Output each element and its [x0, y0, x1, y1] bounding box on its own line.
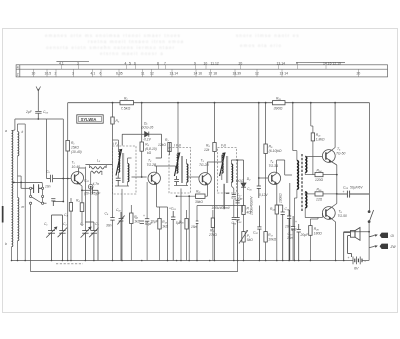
resistor R15 [179, 210, 188, 261]
svg-text:7: 7 [164, 61, 166, 65]
trimmer C10 [117, 212, 124, 261]
capacitor C18b elco [232, 217, 236, 219]
IFT1 core [123, 153, 124, 183]
svg-text:emanes orte ms enoimsa rtenoi: emanes orte ms enoimsa rtenoi smaer tnoe… [45, 33, 181, 38]
wire T1 collector and emitter [79, 168, 91, 203]
resistor R5 [140, 142, 157, 155]
tuning gang trimmer C2 [52, 215, 68, 261]
svg-text:R₂₅: R₂₅ [317, 188, 323, 192]
wire transformer connections [293, 151, 337, 261]
resistor R10 under detector [242, 206, 252, 232]
capacitor C50 antenna coupling [35, 111, 41, 120]
resistor R14 T4 emitter [270, 205, 279, 261]
IF transformer I dashed box [113, 146, 137, 194]
resistor R4 at T1 emitter [76, 199, 84, 227]
speaker [344, 228, 360, 261]
wire T6 collector/emitter [331, 194, 337, 261]
volume potentiometer P1 5k [239, 196, 254, 261]
svg-text:R₁₈: R₁₈ [276, 97, 281, 101]
svg-text:20µF: 20µF [300, 233, 310, 237]
svg-text:6V: 6V [354, 267, 359, 271]
wire left feed column [67, 103, 69, 261]
wire battery to switch column [362, 248, 369, 261]
svg-text:20: 20 [239, 61, 243, 65]
resistor R11 horizontal 39k [176, 190, 208, 261]
SYLWIA nameplate [77, 115, 103, 123]
IFT1 secondary winding [128, 164, 129, 182]
svg-text:10n: 10n [287, 236, 293, 240]
svg-text:4: 4 [296, 61, 298, 65]
svg-text:15kΩ: 15kΩ [71, 146, 79, 150]
IFT2 tuning capacitor [174, 176, 179, 186]
svg-text:C₁₅: C₁₅ [247, 187, 252, 191]
wire T3 collector/emitter [207, 162, 222, 196]
svg-text:C₅₀: C₅₀ [43, 110, 49, 114]
wire right edge drop [369, 103, 371, 211]
svg-text:17 18: 17 18 [209, 71, 218, 75]
svg-text:30n: 30n [106, 224, 112, 228]
svg-text:kΩ: kΩ [147, 151, 152, 155]
capacitor C14 detector filter [236, 201, 240, 261]
wire R5 to T2 base [132, 151, 147, 177]
svg-text:4,7n: 4,7n [93, 182, 100, 186]
resistor R9 bias [264, 144, 282, 154]
oscillator coil L3 [85, 165, 112, 174]
svg-text:+: + [135, 217, 137, 221]
svg-text:etsrno maeit noesr a: etsrno maeit noesr a [100, 51, 164, 56]
resistor R25 horizontal [315, 188, 323, 202]
wire antenna input loop [12, 119, 64, 202]
svg-text:10n: 10n [45, 185, 51, 189]
band switch contacts [13, 182, 47, 204]
svg-text:11,12: 11,12 [211, 61, 219, 65]
wire T2 collector/emitter [155, 166, 176, 261]
svg-text:R₁: R₁ [71, 141, 74, 145]
svg-text:11: 11 [141, 71, 145, 75]
transistor T5 [322, 150, 335, 163]
capacitor C17 [287, 210, 291, 261]
svg-text:100k/400mV: 100k/400mV [250, 196, 254, 215]
resistor R21 1.8k [311, 103, 325, 175]
wire IFT1 connections [113, 140, 132, 261]
svg-text:1,8kΩ: 1,8kΩ [316, 137, 325, 141]
svg-text:TG-3A: TG-3A [269, 164, 280, 168]
svg-text:TG-50: TG-50 [336, 151, 346, 155]
capacitor C16 emitter bypass [277, 205, 285, 261]
svg-text:R₁₄: R₁₄ [270, 207, 275, 211]
svg-text:12Ω: 12Ω [316, 197, 323, 201]
tuning gang C1 main section [46, 215, 57, 261]
IFT1 tuning capacitor [116, 176, 121, 186]
svg-text:R₁₅: R₁₅ [179, 220, 184, 224]
svg-text:SYLWIA: SYLWIA [81, 117, 97, 122]
ferrite rod antenna coil L2 upper [18, 132, 19, 156]
capacitor C27 [291, 216, 295, 261]
wire rail drop resistor R7 column [169, 143, 171, 156]
wire T4 emitter [276, 183, 278, 205]
svg-text:180Ω: 180Ω [314, 231, 323, 235]
svg-text:I F₁II: I F₁II [174, 144, 181, 148]
svg-text:3: 3 [72, 71, 74, 75]
svg-text:2: 2 [17, 73, 19, 77]
svg-text:27kΩ: 27kΩ [208, 233, 217, 237]
svg-text:5kΩ: 5kΩ [247, 238, 253, 242]
IFT3 secondary winding [231, 164, 232, 182]
resistor R3 on feed column [111, 117, 120, 124]
svg-text:I F₁I: I F₁I [113, 142, 119, 146]
wire rail drop x214.5 with resistor R8 [214, 103, 216, 261]
svg-text:13 14: 13 14 [280, 71, 289, 75]
svg-text:13,14: 13,14 [170, 71, 179, 75]
svg-text:C₂₂: C₂₂ [84, 179, 90, 183]
svg-text:(6-10)kΩ: (6-10)kΩ [269, 149, 282, 153]
capacitor C12 coupling [196, 221, 199, 261]
svg-text:ZW: ZW [390, 245, 397, 249]
svg-text:120Ω: 120Ω [315, 178, 324, 182]
svg-text:3: 3 [77, 61, 79, 65]
capacitor at lower row [51, 199, 55, 206]
IFT3 primary winding [220, 153, 225, 176]
svg-text:20: 20 [357, 71, 361, 75]
svg-text:12: 12 [150, 71, 154, 75]
IFT2 secondary winding [187, 164, 188, 182]
resistor R18 390 on rail [273, 97, 286, 111]
resistor R1 [66, 141, 82, 155]
svg-text:8: 8 [157, 61, 159, 65]
wire rail drop pair x255.6/x263.5 [259, 103, 269, 178]
svg-text:10kΩ: 10kΩ [268, 237, 276, 241]
svg-text:Gł: Gł [391, 234, 395, 238]
svg-text:+C₁₈: +C₁₈ [169, 207, 176, 211]
wire T5 collector/emitter [331, 103, 337, 194]
wire AF line [197, 206, 244, 222]
svg-text:C₁: C₁ [44, 222, 47, 226]
svg-text:C₁₀: C₁₀ [116, 208, 121, 212]
svg-text:b: b [5, 242, 7, 246]
svg-text:C₁₄: C₁₄ [232, 196, 237, 200]
svg-text:6: 6 [134, 61, 136, 65]
IFT2 core [181, 156, 182, 183]
diode D1 DOG-26 AGC [122, 122, 161, 159]
svg-text:+: + [348, 256, 350, 260]
svg-text:+: + [343, 190, 345, 194]
driver transformer secondary lower [305, 192, 307, 208]
bus junction dots [11, 260, 345, 262]
ground bus [12, 260, 354, 262]
svg-text:DOG: DOG [236, 179, 244, 183]
svg-text:2: 2 [55, 71, 57, 75]
ghost bleed-through text [45, 33, 300, 56]
capacitor C17 20n [232, 195, 236, 197]
capacitor C5 10n to T1 base [47, 175, 71, 182]
svg-text:C₂₈: C₂₈ [343, 186, 349, 190]
wire switch to jacks junction [344, 223, 369, 248]
gang link dashed [56, 263, 83, 265]
capacitor C28 output electrolytic 50uF [337, 191, 369, 198]
svg-text:14 16: 14 16 [194, 71, 203, 75]
driver transformer Tr1 primary [297, 161, 299, 190]
svg-text:emos nta erio: emos nta erio [240, 43, 282, 48]
svg-text:6: 6 [100, 71, 102, 75]
resistor R17 [264, 154, 277, 261]
svg-text:F₁II: F₁II [221, 144, 226, 148]
svg-text:(10-40): (10-40) [71, 150, 82, 154]
svg-text:-0,1V: -0,1V [143, 138, 152, 142]
resistor R12 27k [208, 210, 217, 261]
tuning gang C7 osc section [81, 227, 91, 261]
antenna [36, 87, 40, 112]
electrolytic C11 [140, 221, 144, 224]
svg-text:m: m [22, 205, 25, 209]
jack G2 external [369, 244, 396, 249]
resistor R26 bottom [309, 218, 323, 261]
switch W1 power [368, 210, 374, 223]
svg-text:12: 12 [255, 71, 259, 75]
resistor R8 [204, 143, 216, 152]
wire T2 emitter bias column [146, 182, 148, 261]
jack G1 headphone [369, 233, 394, 238]
transistor T3 [199, 173, 211, 185]
svg-text:a: a [5, 129, 7, 133]
svg-text:15n: 15n [191, 225, 197, 229]
svg-text:12k: 12k [204, 148, 210, 152]
svg-text:4: 4 [125, 61, 127, 65]
svg-text:5: 5 [129, 61, 131, 65]
svg-text:snore itmse naotr es: snore itmse naotr es [236, 33, 300, 38]
svg-text:7,5kΩ: 7,5kΩ [121, 107, 131, 111]
electrolytic C18 5uF [171, 211, 175, 261]
wire T4 collector to transformer [277, 160, 292, 175]
ruler scale numbers top row [17, 61, 341, 76]
supply rail top [68, 102, 370, 104]
wire switch to loop [31, 189, 43, 271]
transistor T2 [148, 172, 160, 184]
transistor T6 [322, 207, 335, 220]
svg-text:14,16 12,19: 14,16 12,19 [323, 61, 341, 65]
IFT1 primary winding [116, 150, 122, 176]
svg-text:10: 10 [32, 71, 36, 75]
transistor T1 [71, 172, 83, 184]
capacitor C6 4n7 at T1 emitter [91, 187, 98, 261]
wire IFT2 connections [174, 103, 199, 261]
svg-text:TG-50: TG-50 [338, 214, 348, 218]
capacitor C29 elco [297, 224, 301, 261]
svg-text:C₈: C₈ [95, 222, 99, 226]
ferrite rod antenna coil L1 [12, 131, 13, 247]
driver transformer secondary upper [305, 157, 307, 173]
svg-text:1kΩ: 1kΩ [162, 224, 168, 228]
svg-text:100kΩ: 100kΩ [279, 193, 283, 203]
svg-text:DOG-26: DOG-26 [141, 126, 153, 130]
resistor R7 [158, 138, 171, 152]
trimmer capacitor C22 [88, 184, 93, 189]
diode D2 detector [231, 160, 246, 206]
resistor R24 horizontal [315, 168, 324, 182]
svg-text:100k/400mV: 100k/400mV [212, 206, 231, 210]
IFT3 slug adjust line [224, 184, 229, 209]
lower return loop wire [31, 261, 238, 272]
svg-text:4.1: 4.1 [59, 61, 64, 65]
capacitor C9 30n [110, 218, 114, 221]
resistor R6 [130, 205, 141, 261]
svg-text:0,12V: 0,12V [259, 193, 268, 197]
svg-text:(20-125)pF: (20-125)pF [84, 192, 101, 196]
scan artifact left edge [2, 206, 4, 223]
wire IFT3 connections [222, 155, 234, 261]
svg-text:+: + [295, 220, 297, 224]
svg-text:oensrta eiotn smrehn oatens ie: oensrta eiotn smrehn oatens iermso ntaer [46, 45, 175, 50]
svg-text:50µF/6V: 50µF/6V [350, 186, 363, 190]
wire feed column x112.5 [112, 103, 114, 261]
tuning gang trimmer C8 [85, 222, 98, 261]
wire rail drop x141.7 [141, 103, 143, 142]
ferrite rod antenna coil L2 lower [18, 198, 19, 241]
svg-text:10,5: 10,5 [45, 71, 52, 75]
svg-text:2µF: 2µF [25, 110, 33, 114]
trimmer capacitor block C3 [64, 198, 73, 261]
svg-text:13,14: 13,14 [277, 61, 286, 65]
dial scale ruler [16, 62, 387, 77]
ruler tick marks [34, 65, 359, 77]
IFT3 core [227, 156, 228, 183]
electrolytic C13 10uF [145, 219, 149, 222]
svg-text:TG-2B: TG-2B [199, 163, 210, 167]
svg-text:C₂₀: C₂₀ [253, 231, 259, 235]
svg-text:12kΩ: 12kΩ [158, 143, 166, 147]
svg-text:R₂₄: R₂₄ [317, 168, 323, 172]
IFT2 primary winding [174, 153, 179, 176]
wire L2 interconnect [17, 156, 19, 198]
node T1 base [67, 178, 69, 180]
capacitor C20 on centre column [257, 206, 261, 261]
svg-text:R₁₁: R₁₁ [196, 190, 200, 194]
svg-text:rsetna moeit tnsaeo itrsn emoa: rsetna moeit tnsaeo itrsn emoa [88, 39, 184, 44]
wire feed column x292.8 [290, 103, 293, 261]
driver transformer core [301, 154, 302, 211]
svg-text:C₁₅: C₁₅ [232, 221, 237, 225]
battery 6V [353, 257, 362, 265]
wire AGC column x237.6 [237, 160, 239, 208]
resistor R2 7.5k on rail [120, 97, 134, 111]
svg-text:390Ω: 390Ω [274, 107, 283, 111]
ruler scale numbers bottom row [32, 71, 361, 75]
wire coil connections [12, 124, 26, 261]
IF transformer III dashed box [218, 148, 237, 194]
svg-text:4,1: 4,1 [91, 71, 96, 75]
resistor R13 [158, 207, 169, 261]
svg-text:39kΩ: 39kΩ [195, 200, 203, 204]
capacitor at band switch [32, 184, 42, 193]
capacitor C15 base [257, 178, 261, 198]
svg-text:9: 9 [194, 61, 196, 65]
svg-text:18,39: 18,39 [233, 71, 242, 75]
svg-text:4: 4 [17, 66, 19, 70]
IF transformer II dashed box [169, 148, 191, 194]
transistor T4 [268, 172, 280, 184]
svg-text:10: 10 [204, 61, 208, 65]
wire oscillator coil links [85, 165, 106, 231]
svg-text:6,35: 6,35 [116, 71, 123, 75]
rail junction dots [112, 102, 336, 104]
svg-text:+: + [143, 214, 145, 218]
